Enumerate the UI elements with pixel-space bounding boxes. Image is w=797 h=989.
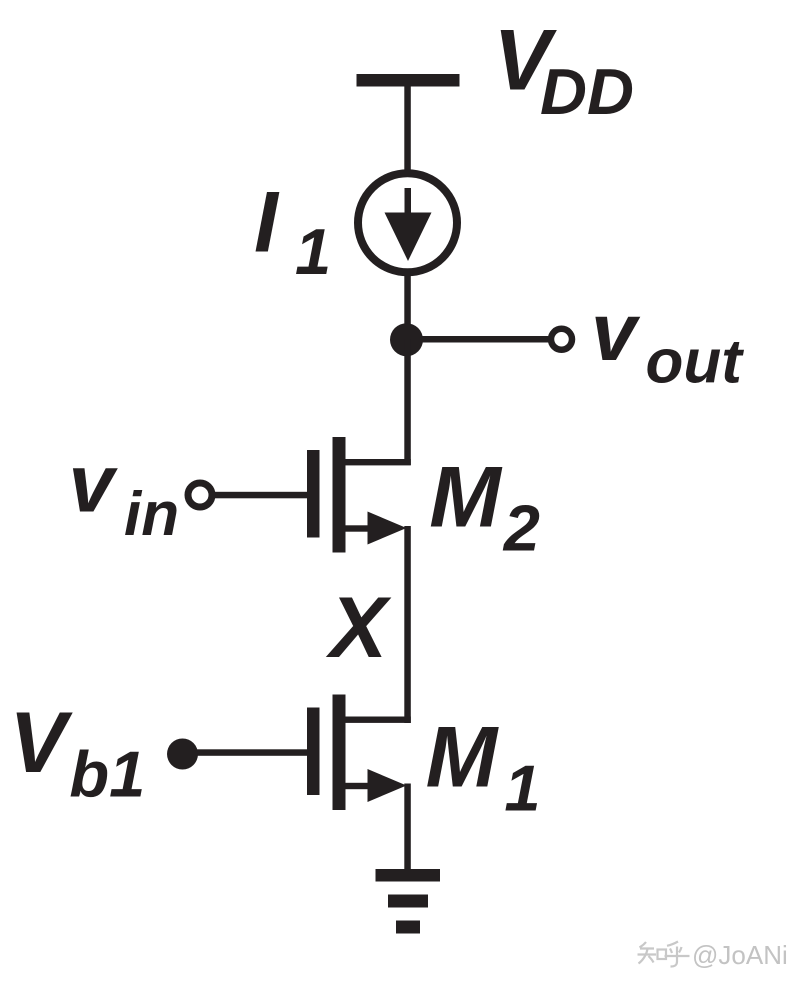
svg-text:2: 2	[502, 491, 540, 564]
label I1	[254, 175, 331, 289]
乎	[665, 942, 690, 967]
channel bar	[333, 695, 346, 811]
watermark 知乎 @JoANi	[638, 940, 788, 970]
node output junction dot	[390, 323, 423, 356]
label vout	[591, 287, 744, 397]
terminal Vb1 solid dot	[167, 739, 198, 770]
channel bar	[333, 437, 346, 553]
svg-text:DD: DD	[540, 55, 634, 128]
svg-text:V: V	[9, 695, 73, 791]
drain horizontal	[346, 459, 411, 465]
svg-text:v: v	[591, 287, 641, 378]
label vin	[69, 438, 180, 549]
wire M1 source to ground	[404, 784, 411, 871]
terminal vout open circle	[551, 329, 572, 350]
svg-text:out: out	[646, 328, 745, 397]
svg-text:1: 1	[295, 215, 331, 288]
svg-text:in: in	[124, 480, 179, 549]
svg-text:1: 1	[504, 751, 540, 824]
wire node to M2 drain	[404, 339, 411, 465]
label M2	[429, 450, 540, 565]
gate wire	[182, 749, 307, 756]
ground symbol	[376, 869, 441, 934]
drain horizontal	[346, 717, 411, 723]
source horizontal	[346, 525, 372, 531]
wire node to vout terminal	[407, 336, 549, 343]
svg-text:@JoANi: @JoANi	[692, 940, 788, 970]
source arrow	[368, 512, 407, 545]
wire M2 source to M1 drain (node X)	[404, 526, 411, 723]
svg-text:M: M	[429, 450, 503, 546]
svg-text:v: v	[69, 438, 119, 529]
wire current source to output node	[404, 272, 411, 342]
gate wire	[213, 492, 307, 499]
gate bar	[307, 450, 320, 538]
current source I1	[358, 173, 457, 272]
svg-text:M: M	[426, 710, 500, 806]
transistor M1	[182, 695, 411, 811]
label M1	[426, 710, 541, 825]
svg-text:I: I	[254, 175, 280, 271]
svg-text:b1: b1	[69, 738, 145, 811]
wire VDD to current source	[404, 86, 411, 172]
gate bar	[307, 708, 320, 796]
label Vb1	[9, 695, 145, 811]
label VDD	[494, 13, 634, 129]
svg-text:X: X	[326, 580, 392, 676]
知	[638, 942, 657, 964]
power rail VDD bar	[357, 74, 460, 87]
transistor M2	[213, 437, 411, 553]
terminal vin open circle	[188, 483, 212, 507]
source horizontal	[346, 783, 372, 789]
source arrow	[368, 769, 407, 802]
